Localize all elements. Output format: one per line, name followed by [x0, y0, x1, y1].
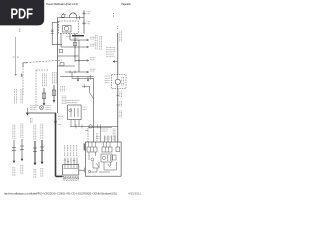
wire: thick battery bus vertical [55, 113, 57, 176]
fusible link C3 bars [33, 148, 37, 151]
feeds above big box [85, 127, 115, 142]
arrowhead lead-in [15, 74, 17, 76]
dash mark near box corner [21, 74, 23, 78]
fusible link C4 arrowhead [41, 162, 44, 165]
fusible link C4 wire [41, 140, 43, 162]
contact diagonal b [108, 164, 111, 168]
wire: row 2 [61, 46, 89, 48]
svg-text:Power Distribution (Part 1 of: Power Distribution (Part 1 of 3) [46, 2, 78, 6]
label right of thick bus [58, 117, 64, 125]
fusible link C1 arrowhead [13, 161, 16, 163]
generator G1 box [63, 25, 71, 32]
connector internal stubs [65, 165, 77, 168]
connector block C270 [63, 145, 85, 180]
junction dot on thick bus [54, 121, 56, 123]
label left of solenoid box [105, 76, 111, 83]
splice S101 circle [40, 106, 44, 110]
wire loop crossover [69, 13, 77, 20]
PDF badge [0, 0, 44, 25]
arrow row6 [87, 71, 89, 73]
fusible link B wire [53, 85, 55, 101]
arrow into feed a [85, 129, 88, 131]
wire: long horizontal bus G [26, 112, 56, 114]
wire: main left bus [57, 18, 59, 113]
relay K1 label right [83, 107, 88, 109]
wire: connector to big box [79, 169, 84, 171]
wire: L connector run [82, 86, 94, 99]
row destination label 4 [90, 58, 96, 60]
vertical label columns near fan rows [95, 35, 101, 50]
fuse F2 [73, 42, 77, 45]
label above link C3 [34, 125, 36, 141]
fusible link C2 bars [20, 146, 24, 149]
wire: lower horizontal bus [70, 125, 118, 127]
svg-text:Page 1 of 1: Page 1 of 1 [121, 2, 131, 6]
stub wires above connector [65, 158, 77, 165]
tick on lead-in [13, 56, 19, 58]
label strips above fusible link B [52, 72, 56, 84]
battery junction box dashed outline [59, 21, 79, 33]
label HOT AT ALL TIMES col2 [21, 89, 23, 104]
contact diagonal a [96, 163, 99, 167]
node B+ upper cross [82, 11, 86, 15]
small rect right [113, 155, 116, 160]
fuse at far right [116, 147, 120, 152]
fusible link C1 wire [13, 140, 15, 161]
wire: link from row6 down [71, 72, 73, 78]
wire: fan vertical c [74, 33, 76, 62]
splice circle on lower bus [89, 125, 92, 128]
text cluster under fusible link B [46, 106, 52, 110]
label above link C2 [21, 124, 23, 139]
wire: right main bus lower [117, 89, 119, 142]
bottom internal bus [99, 171, 110, 173]
ground stub arrow [27, 108, 29, 114]
wire feed c [96, 133, 98, 142]
fusible link C3 wire [34, 141, 36, 163]
label above link C1 [13, 125, 15, 140]
fusible link C4 bars [40, 147, 44, 150]
relay drops to bus [71, 120, 79, 127]
connector tick C100 [79, 16, 81, 20]
wire: fan vertical b [69, 33, 71, 40]
starter solenoid circle [115, 79, 120, 84]
wire: fan vertical a [60, 33, 62, 47]
splice colon [19, 29, 21, 32]
tick marks on lower bus [116, 96, 119, 106]
wire: double bus upper [60, 75, 94, 77]
fusible link C1 bars [12, 147, 16, 150]
right column [90, 26, 126, 142]
arrow row1 [87, 39, 89, 41]
wire feed b [100, 127, 102, 142]
row destination label 2 [90, 44, 96, 46]
outer dashed box edge left [22, 63, 24, 96]
fusible link A body [42, 93, 46, 98]
labels above feeds [102, 129, 109, 131]
label at B+ lower [87, 22, 92, 24]
wire: row 5 [58, 65, 76, 67]
label block mid-left upper [61, 86, 65, 92]
fusible link A wire [43, 88, 45, 104]
label below link C4 [41, 168, 43, 177]
wire: lead-in vertical [15, 37, 17, 74]
splice specks right top [113, 13, 115, 17]
fuse F4 [60, 63, 64, 66]
wire: double bus lower [72, 77, 94, 79]
node B+ lower cross [82, 21, 86, 25]
wire: top feed horizontal [58, 17, 85, 19]
wire: row 3 [58, 55, 80, 57]
pin circles [64, 177, 66, 179]
relay K1 box [68, 105, 82, 120]
four fusible link columns bottom-left [12, 118, 44, 178]
inner dashed box left [35, 70, 37, 108]
fuse row left [87, 147, 97, 152]
middle section [60, 72, 118, 142]
text cluster near splice [30, 106, 38, 110]
wire feeds d-f [105, 136, 116, 143]
junction ticks on rows [70, 39, 79, 74]
multiline label left of bus [106, 48, 116, 57]
feed stubs to fuse rows [89, 142, 118, 147]
contact circle a [91, 158, 94, 161]
wire: row to starter relay [70, 39, 89, 41]
fuse marks on stubs [64, 160, 75, 162]
connector pin housing dashed [63, 176, 78, 180]
contact circle b [88, 170, 90, 172]
row destination label 1 [90, 37, 96, 39]
tick on L run [84, 84, 86, 88]
small label pair above columns [30, 118, 32, 123]
label above row1 [66, 36, 72, 38]
fuse row right [102, 147, 112, 152]
label under thick stub [74, 38, 80, 40]
wire: lower bus echo [88, 127, 112, 129]
wire: thick bus turn to connector [56, 175, 63, 177]
wire: thick stub to battery [72, 35, 84, 37]
fusible link F1 mark [51, 29, 54, 33]
generator G1 circle [64, 26, 69, 31]
label strips above fusible link A [42, 74, 46, 88]
fuse F3 [59, 49, 63, 52]
fusible link A arrowhead [43, 103, 46, 106]
relay K1 internal contacts [71, 108, 78, 117]
wire: long vertical to lower bus [93, 78, 95, 142]
fusible link C2 arrowhead [21, 159, 24, 161]
label below link C3 [34, 169, 36, 178]
inner relay circle [102, 156, 105, 159]
svg-text:PDF: PDF [10, 5, 33, 22]
wire: jog to center [52, 44, 62, 46]
label at B+ upper [87, 12, 92, 14]
wire: battery vertical [83, 10, 85, 33]
connector body [63, 165, 79, 175]
svg-text:4/25/2011: 4/25/2011 [128, 192, 141, 196]
label HOT AT ALL TIMES col1 [15, 89, 17, 104]
label inside solenoid box [122, 77, 124, 86]
box outline [86, 142, 122, 176]
arrow row2 [87, 46, 89, 48]
label block mid-left lower [62, 96, 66, 105]
splice S101 cross [40, 106, 43, 109]
wire: row 6 [65, 71, 89, 73]
fusible link F0 on top wire [61, 13, 65, 18]
splice colon right [117, 26, 119, 29]
relay K1 label above [67, 100, 80, 102]
inner relay contacts [108, 155, 111, 161]
outer dashed box corner piece [23, 63, 28, 68]
trace mesh left [89, 152, 99, 172]
wire: row 4 [75, 60, 89, 62]
fusible link C2 wire [21, 139, 23, 159]
outer dashed box edge top [23, 60, 62, 63]
relay K1 coil circle [69, 109, 72, 112]
label strip columns left of box [15, 89, 23, 104]
row destination label 6 [90, 69, 96, 71]
svg-text:http://www.alldatapro.com/alld: http://www.alldatapro.com/alldata/PRO~V2… [4, 192, 117, 196]
side bracket blob [84, 143, 86, 150]
junction ticks lower bus [76, 124, 101, 128]
inner relay box [101, 154, 112, 162]
wire feed a [87, 128, 89, 142]
connector internal divider [64, 167, 79, 169]
wire: left drop from top wire [52, 23, 57, 45]
arrow into bus [114, 61, 118, 63]
drop ticks with arrows [78, 76, 88, 80]
label above link C4 [41, 124, 43, 140]
label below link C2 [21, 165, 23, 174]
fusible link C3 arrowhead [34, 163, 37, 166]
wire: fan vertical d [78, 40, 80, 72]
trace mesh right [104, 162, 117, 170]
label below link C1 [13, 167, 15, 176]
tick at box entry [83, 168, 85, 173]
labels above stubs [65, 145, 77, 157]
wire labels along lower bus [120, 92, 122, 98]
big fuse box lower right [84, 142, 122, 176]
inner dashed box top [36, 69, 48, 71]
label right of bus top [120, 31, 122, 43]
fusible link B arrowhead [53, 100, 56, 103]
fusible link B body [52, 90, 56, 95]
wire through solenoid [117, 75, 119, 89]
arrow row4 [87, 60, 89, 62]
wire: right main bus upper [117, 33, 119, 74]
node cross on bus [90, 75, 92, 80]
starter solenoid dashed box [112, 75, 126, 89]
